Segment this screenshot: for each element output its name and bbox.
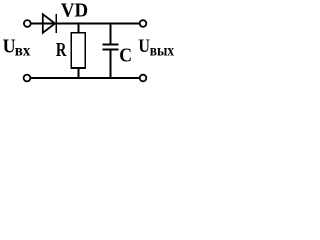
svg-text:U: U: [3, 37, 16, 58]
svg-text:R: R: [56, 39, 67, 61]
svg-text:C: C: [119, 45, 132, 67]
svg-text:вых: вых: [150, 43, 174, 60]
svg-text:вх: вх: [15, 43, 31, 60]
svg-text:VD: VD: [61, 0, 88, 22]
svg-text:U: U: [138, 36, 150, 57]
